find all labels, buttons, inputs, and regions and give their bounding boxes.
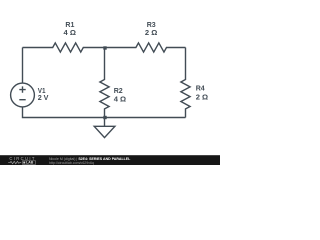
svg-text:2 V: 2 V — [38, 93, 50, 102]
svg-text:http://circuitlab.com/c629v6q: http://circuitlab.com/c629v6q — [49, 161, 94, 165]
svg-text:LAB: LAB — [26, 161, 34, 165]
svg-text:R4: R4 — [196, 84, 206, 93]
svg-text:2 Ω: 2 Ω — [145, 28, 157, 37]
svg-text:R2: R2 — [114, 86, 123, 95]
svg-text:4 Ω: 4 Ω — [64, 28, 76, 37]
svg-text:2 Ω: 2 Ω — [196, 92, 208, 101]
svg-text:4 Ω: 4 Ω — [114, 95, 126, 104]
